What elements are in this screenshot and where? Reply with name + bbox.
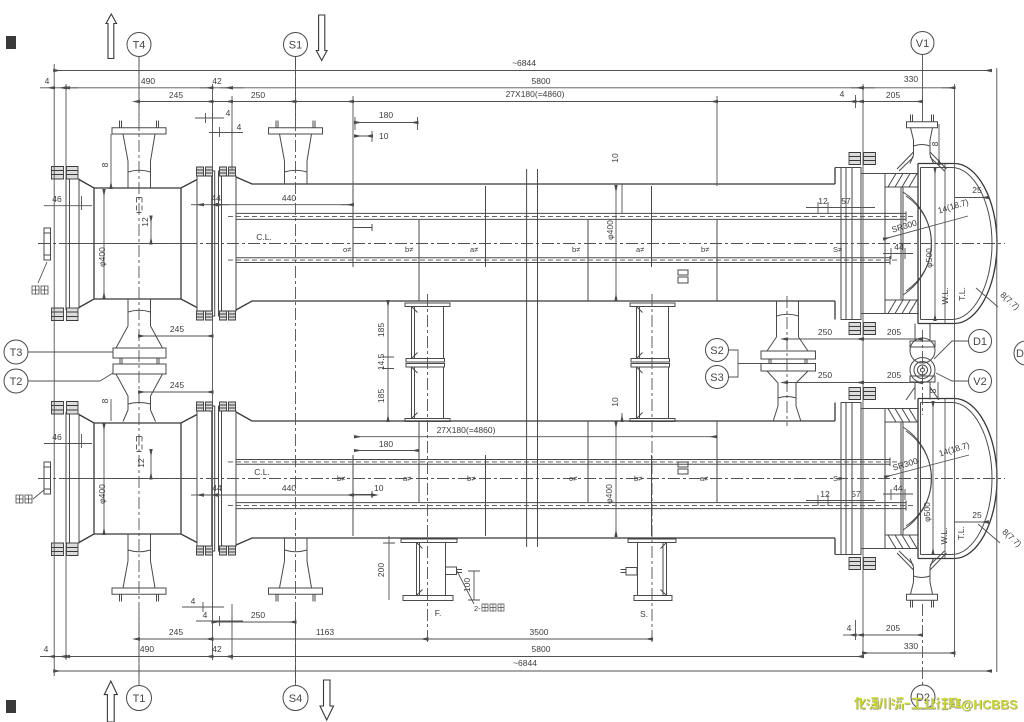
- svg-text:250: 250: [251, 90, 265, 100]
- svg-text:V2: V2: [973, 376, 986, 388]
- svg-text:25: 25: [972, 510, 982, 520]
- svg-text:250: 250: [818, 327, 832, 337]
- svg-text:5800: 5800: [532, 644, 551, 654]
- bottom dim 245/1163/3500 row: [139, 638, 652, 640]
- svg-text:10: 10: [610, 153, 620, 163]
- dim row3 top: 245 250 27X180 4 205: [139, 101, 922, 103]
- support column left centerline: [427, 294, 429, 644]
- svg-text:b≠: b≠: [405, 245, 413, 254]
- dim row2 top: 4 490 42 5800 330: [40, 87, 955, 89]
- bottom 44 440 10 row: [203, 494, 372, 496]
- bottom 27X180 row: [355, 436, 716, 438]
- svg-text:12: 12: [820, 489, 830, 499]
- svg-text:φ500: φ500: [924, 248, 934, 268]
- vertical dim 10 top (x617): [621, 184, 623, 213]
- balloon S3 with leader: [706, 366, 729, 389]
- svg-text:205: 205: [886, 90, 900, 100]
- svg-text:S≠: S≠: [833, 474, 842, 483]
- svg-text:185: 185: [376, 389, 386, 403]
- dim 46 bottom: [44, 434, 92, 448]
- svg-text:57: 57: [841, 196, 851, 206]
- svg-text:4: 4: [237, 122, 242, 132]
- svg-text:T.L.: T.L.: [957, 287, 967, 301]
- svg-text:10: 10: [610, 397, 620, 407]
- nameplate label top: [32, 286, 48, 294]
- svg-text:4: 4: [203, 610, 208, 620]
- svg-text:b≠: b≠: [337, 474, 345, 483]
- D1 drain nozzle of top head: [910, 324, 935, 348]
- phi500 dim top: [934, 168, 936, 320]
- svg-text:245: 245: [169, 627, 183, 637]
- svg-text:D1: D1: [973, 336, 987, 348]
- svg-text:F.: F.: [435, 608, 442, 618]
- svg-text:180: 180: [379, 110, 393, 120]
- svg-text:46: 46: [52, 432, 62, 442]
- svg-text:330: 330: [904, 74, 918, 84]
- flange face extension line x212: [212, 84, 214, 660]
- svg-text:C.L.: C.L.: [256, 232, 272, 242]
- bottom saddle F: [401, 539, 462, 601]
- dim 46 top: [44, 196, 92, 210]
- svg-text:S.: S.: [640, 609, 648, 619]
- svg-text:44: 44: [212, 483, 222, 493]
- svg-text:490: 490: [140, 644, 154, 654]
- svg-text:V1: V1: [916, 38, 929, 50]
- balloon V2 with leader: [969, 370, 992, 393]
- bottom dim row 490/42/5800: [40, 656, 863, 658]
- svg-text:10: 10: [379, 131, 389, 141]
- bottom dim row ~6844: [54, 670, 991, 672]
- svg-text:a≠: a≠: [636, 245, 644, 254]
- S2/S3 connecting nozzle stack: [761, 301, 816, 422]
- baffle extension lines top: [353, 96, 717, 186]
- svg-text:b≠: b≠: [467, 474, 475, 483]
- svg-text:T2: T2: [10, 376, 23, 388]
- svg-text:S4: S4: [289, 693, 302, 705]
- bottom vessel (mirrored copy): [44, 388, 997, 608]
- svg-text:a≠: a≠: [470, 245, 478, 254]
- balloon T1: [127, 686, 152, 711]
- svg-text:φ400: φ400: [97, 247, 107, 267]
- small extension x855.5: [855, 95, 857, 640]
- svg-text:T1: T1: [133, 693, 146, 705]
- svg-text:4: 4: [191, 596, 196, 606]
- tangent line extension x954.5: [954, 84, 956, 657]
- svg-text:8: 8: [100, 398, 110, 403]
- svg-text:S≠: S≠: [833, 245, 842, 254]
- svg-text:b≠: b≠: [634, 474, 642, 483]
- svg-text:330: 330: [904, 641, 918, 651]
- svg-text:10: 10: [374, 483, 384, 493]
- dim 12 57 bottom right: [806, 495, 875, 506]
- long vertical extension line left: [53, 64, 55, 676]
- svg-text:o≠: o≠: [569, 474, 577, 483]
- top vessel: [44, 115, 997, 335]
- svg-text:4: 4: [45, 76, 50, 86]
- svg-text:14.5: 14.5: [376, 353, 386, 370]
- svg-text:~6844: ~6844: [512, 58, 536, 68]
- svg-text:205: 205: [887, 370, 901, 380]
- vertical dim 12 top: [150, 216, 152, 243]
- svg-text:a≠: a≠: [403, 474, 411, 483]
- svg-text:φ400: φ400: [604, 484, 614, 504]
- dim row 44 440 top (inside shell): [203, 204, 353, 206]
- svg-text:S2: S2: [710, 345, 723, 357]
- svg-text:245: 245: [170, 380, 184, 390]
- phi400 dim top channel: [103, 190, 105, 298]
- flow arrow down at S1: [316, 15, 327, 61]
- vertical dim 8 bottom left: [110, 399, 112, 421]
- svg-text:57: 57: [851, 489, 861, 499]
- right flange face extension x863: [862, 84, 864, 657]
- scan artifact top-left: [6, 36, 16, 49]
- bottom dim 250 row: [213, 621, 296, 623]
- thermowell under bottom vessel top nozzle: [137, 437, 143, 452]
- spectacle blind solid disc rings: [910, 358, 935, 383]
- svg-text:245: 245: [169, 90, 183, 100]
- svg-text:4: 4: [847, 623, 852, 633]
- dim 44 head bottom: [883, 489, 913, 500]
- V2 nozzle gussets: [906, 387, 939, 400]
- svg-text:205: 205: [886, 623, 900, 633]
- flow arrow down at S4: [320, 680, 334, 720]
- nameplate label bottom: [16, 495, 32, 503]
- svg-text:T.L.: T.L.: [956, 526, 966, 540]
- svg-text:4: 4: [44, 644, 49, 654]
- svg-text:440: 440: [282, 483, 296, 493]
- dim row5 top: 10: [355, 135, 372, 137]
- head tip extension x996.8: [996, 68, 998, 672]
- red watermark (vector CJK glyphs + latin text): [855, 698, 962, 710]
- svg-text:8: 8: [928, 388, 938, 393]
- vertical dim 100 lug: [468, 571, 480, 600]
- phi500 dim bottom: [932, 402, 934, 554]
- svg-text:42: 42: [212, 644, 222, 654]
- vertical dim 10 bottom (x617): [621, 413, 623, 421]
- svg-text:φ500: φ500: [922, 502, 932, 522]
- svg-text:250: 250: [818, 370, 832, 380]
- svg-text:W.L.: W.L.: [939, 527, 949, 544]
- mid dim 250/205 upper: [787, 338, 922, 340]
- balloon D1 with leader: [969, 330, 992, 353]
- svg-text:42: 42: [212, 76, 222, 86]
- vertical dim 8 top left: [110, 134, 112, 188]
- S2/S3 nozzle centerline: [786, 296, 788, 426]
- svg-text:4: 4: [840, 89, 845, 99]
- svg-text:b≠: b≠: [572, 245, 580, 254]
- svg-text:1163: 1163: [316, 627, 335, 637]
- balloon T2 with leader: [4, 369, 28, 393]
- dim 25 head top: [955, 197, 989, 199]
- vertical dims 185/14.5/185: [382, 301, 394, 421]
- S1/S4 nozzle centerline: [295, 56, 297, 686]
- svg-text:12: 12: [136, 458, 146, 468]
- svg-text:2-: 2-: [474, 604, 481, 613]
- svg-text:4: 4: [226, 108, 231, 118]
- svg-text:490: 490: [141, 76, 155, 86]
- stacking support column left: [405, 303, 450, 422]
- bottom dim 4/205 right row: [843, 634, 856, 636]
- svg-text:W.L.: W.L.: [940, 287, 950, 304]
- balloon V1: [911, 32, 934, 55]
- svg-text:φ400: φ400: [97, 484, 107, 504]
- small 4/4 dims at flange top: [195, 113, 224, 123]
- svg-text:46: 46: [52, 194, 62, 204]
- svg-text:o≠: o≠: [343, 245, 351, 254]
- vertical dim 200 saddle: [383, 536, 395, 600]
- svg-text:3500: 3500: [530, 627, 549, 637]
- vertical dim 12 bottom: [150, 450, 152, 479]
- small coupling on bottom vessel centerline: [678, 462, 688, 474]
- bottom saddle S: [621, 539, 677, 601]
- small coupling on top vessel centerline: [678, 270, 688, 283]
- svg-text:T4: T4: [133, 40, 146, 52]
- dim 12 57 top right: [806, 202, 875, 213]
- flow arrow up bottom-left: [104, 681, 117, 722]
- stacking support column right: [630, 303, 675, 422]
- svg-text:C.L.: C.L.: [254, 467, 270, 477]
- svg-text:44: 44: [893, 483, 903, 493]
- svg-text:12: 12: [818, 196, 828, 206]
- balloon T3 with leader: [4, 340, 28, 364]
- dim 8 V1 nozzle: [938, 124, 940, 164]
- mid dim 245 lower: [139, 391, 213, 393]
- svg-text:245: 245: [170, 324, 184, 334]
- balloon D2: [911, 685, 935, 709]
- svg-text:D: D: [1016, 348, 1024, 360]
- svg-text:25: 25: [972, 185, 982, 195]
- T3/T2 nozzle centerline: [138, 56, 140, 686]
- svg-text:S3: S3: [710, 372, 723, 384]
- balloon T4: [127, 33, 151, 57]
- flow arrow up top-left: [106, 14, 117, 59]
- svg-text:185: 185: [376, 323, 386, 337]
- V1/D2 vertical centerline: [922, 55, 924, 115]
- svg-text:@HCBBS: @HCBBS: [961, 698, 1018, 712]
- svg-text:27X180(=4860): 27X180(=4860): [437, 425, 496, 435]
- clipped balloon right edge: [1014, 341, 1024, 365]
- svg-text:12: 12: [140, 217, 150, 227]
- phi400 dim top shell: [615, 186, 617, 300]
- dim row1 ~6844 top: [54, 70, 991, 72]
- shell gasket extension x232: [231, 96, 233, 660]
- mid dim 245 upper: [139, 335, 213, 337]
- bottom vessel centerline C.L.: [38, 478, 1005, 480]
- svg-text:a≠: a≠: [700, 474, 708, 483]
- scan artifact bottom-left: [6, 700, 16, 713]
- svg-text:~6844: ~6844: [513, 658, 537, 668]
- phi400 dim bottom shell: [615, 422, 617, 536]
- balloon S2 with leader: [706, 339, 729, 362]
- svg-text:8: 8: [930, 141, 940, 146]
- balloon S1: [284, 33, 308, 57]
- dim 44 head top: [883, 248, 913, 259]
- svg-text:8: 8: [100, 162, 110, 167]
- spectacle blind open ring: [910, 338, 935, 363]
- vertical dim 8 V2: [937, 382, 939, 400]
- T3/T2 connecting nozzle stack: [113, 299, 166, 422]
- dim row4 top: 180: [355, 122, 418, 124]
- svg-text:T3: T3: [10, 347, 23, 359]
- svg-text:205: 205: [887, 327, 901, 337]
- svg-text:200: 200: [376, 563, 386, 577]
- svg-text:S1: S1: [289, 40, 302, 52]
- mid dim 250/205 lower: [787, 382, 922, 384]
- svg-text:φ400: φ400: [605, 220, 615, 240]
- svg-text:44: 44: [894, 242, 904, 252]
- svg-text:5800: 5800: [532, 76, 551, 86]
- V2 vent nozzle of bottom head: [910, 376, 935, 400]
- svg-text:250: 250: [251, 610, 265, 620]
- svg-text:44: 44: [211, 193, 221, 203]
- svg-text:27X180(=4860): 27X180(=4860): [506, 89, 565, 99]
- cover face extension line: [65, 84, 67, 660]
- top vessel centerline C.L.: [38, 243, 1005, 245]
- svg-text:b≠: b≠: [701, 245, 709, 254]
- support column right centerline: [651, 294, 653, 644]
- bottom 180 row: [355, 450, 419, 452]
- balloon S4: [283, 686, 308, 711]
- drawing break lines: [527, 169, 538, 547]
- bottom dim 330 right row: [863, 652, 955, 654]
- dim 25 head bottom: [955, 521, 989, 523]
- svg-text:440: 440: [282, 193, 296, 203]
- phi400 dim bottom channel: [103, 424, 105, 534]
- thermowell under T4 nozzle: [137, 198, 143, 213]
- bottom small 4/4 dims: [182, 602, 224, 612]
- svg-text:180: 180: [379, 439, 393, 449]
